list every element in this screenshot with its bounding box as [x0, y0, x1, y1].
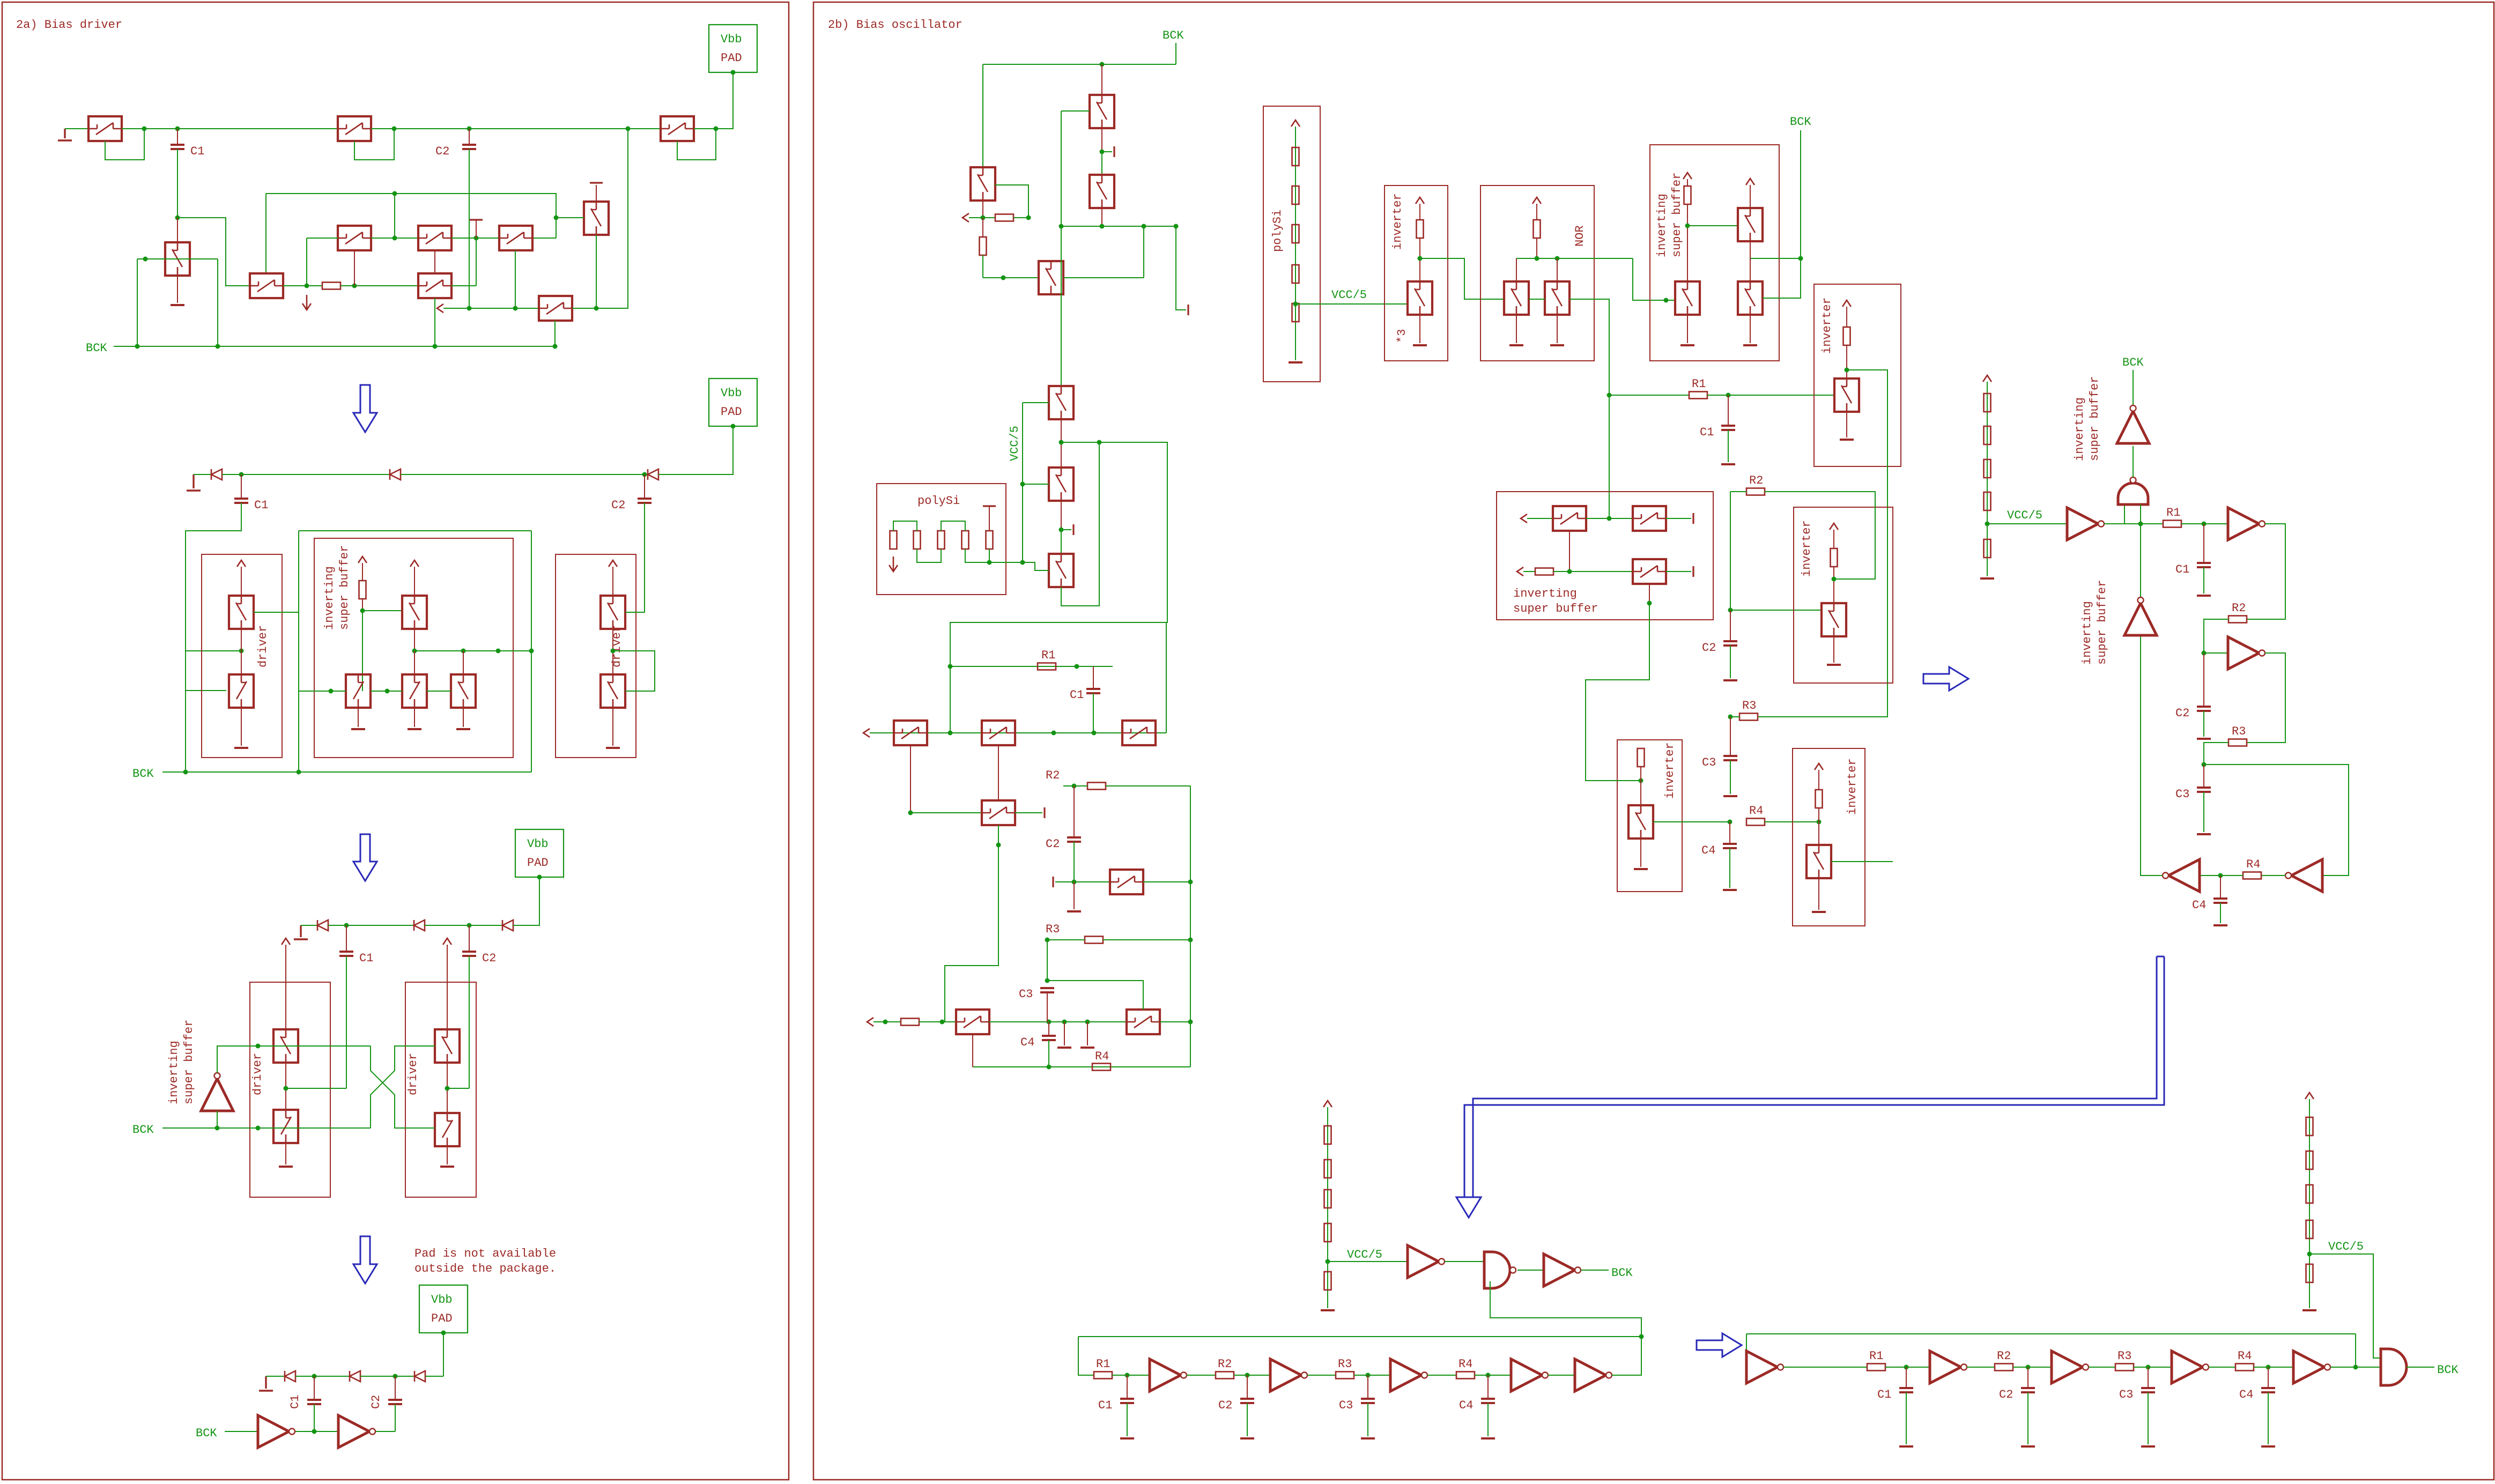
inverter BR-0 [1746, 1351, 1783, 1383]
wire C3m gnd lead [1730, 760, 1731, 794]
svg-text:C1: C1 [2175, 563, 2189, 576]
svg-text:super buffer: super buffer [2088, 376, 2101, 461]
wire C2g gnd lead [2203, 711, 2204, 737]
block frame inverting super buffer A2 [314, 538, 513, 758]
wire R2f left [1063, 785, 1087, 786]
inverter BR-4 [2293, 1351, 2330, 1383]
net label BCK (A4) [196, 1427, 217, 1440]
junction rail riser [626, 127, 631, 131]
wire C1m gnd lead [1728, 430, 1729, 462]
wire ISB2 top right [1666, 518, 1691, 519]
ground G44 C4i [2261, 1445, 2275, 1448]
resistor R1 (RM) [2163, 506, 2181, 528]
junction A4 n1 [312, 1374, 317, 1379]
arrow down polySi2 [889, 556, 898, 572]
svg-text:C1: C1 [1700, 426, 1714, 439]
capacitor C1 (RM) [2175, 563, 2211, 576]
junction n422c [1100, 224, 1105, 229]
wire C1g gnd lead [2203, 567, 2204, 593]
resistor RM chain-3 [1984, 459, 1991, 478]
label driver (2) [610, 625, 624, 667]
svg-text:R3: R3 [2232, 725, 2246, 738]
wire BL s4 [1548, 1375, 1575, 1376]
svg-text:VCC/5: VCC/5 [2328, 1240, 2364, 1253]
net arrow A1 row [437, 304, 443, 313]
junction BCK2 a [183, 770, 188, 775]
wire C2m gnd lead [1730, 645, 1731, 678]
wire driver2 lower gate [613, 651, 655, 691]
wire D3 to pad [658, 427, 733, 474]
junction n422b [1174, 224, 1179, 229]
label inverter (1) [1391, 193, 1404, 250]
diode D7 [285, 1371, 295, 1382]
wire ISB loop left [298, 531, 299, 772]
transistor B2 [418, 226, 451, 250]
wire F1 to nand [1445, 1261, 1484, 1262]
wire rowC left [873, 1021, 901, 1022]
wire nand out [1517, 1270, 1544, 1271]
transistor Vb4 [1090, 175, 1114, 208]
transistor driver3 lower [273, 1110, 298, 1143]
svg-text:R1: R1 [1096, 1357, 1110, 1371]
junction C4m node [1728, 820, 1733, 825]
inverting super buffer A (RM) [2067, 508, 2104, 540]
ground G20 ISB1 left [1680, 344, 1694, 346]
wire rowD [973, 1066, 1190, 1067]
wire D5 to D6 [425, 925, 502, 926]
ground G34 C4g [2213, 924, 2227, 926]
wire NOR b1 src [1516, 315, 1517, 343]
arrow up blk1 [1842, 300, 1851, 307]
svg-text:2b) Bias oscillator: 2b) Bias oscillator [828, 18, 963, 32]
NAND gate (BL) [1484, 1252, 1516, 1288]
junction BR n4 [2266, 1365, 2271, 1370]
label polySi (2) [917, 494, 960, 508]
wire R1 row a [1609, 395, 1689, 396]
wire NOR down to R1 row [1609, 299, 1610, 395]
ground G8 driver2 [606, 747, 620, 749]
junction BR n2 [2026, 1365, 2031, 1370]
ground G40 BR chain [2302, 1309, 2316, 1311]
capacitor C2 (LMO) [1046, 837, 1081, 851]
wire BR s4 [2330, 1367, 2381, 1368]
svg-text:driver: driver [406, 1053, 420, 1095]
wire R4 to blk4 [1765, 821, 1819, 822]
svg-text:R3: R3 [1046, 923, 1060, 936]
wire n3 to triD [2204, 765, 2349, 875]
junction C2a to row [467, 306, 472, 311]
wire n2 to T4 [177, 218, 250, 286]
resistor R (A1 mid) [322, 283, 340, 290]
wire T7 gate loop [677, 129, 716, 160]
svg-text:BCK: BCK [86, 342, 107, 355]
ground G36 C1h [1120, 1437, 1134, 1440]
capacitor C1 (LMO) [1070, 688, 1100, 702]
wire VCC/5 to inverter1 [1295, 303, 1408, 305]
transistor B3 [499, 226, 532, 250]
junction ISB-A2 n1 [360, 609, 365, 613]
wire NOR row482 [1516, 258, 1633, 259]
wire pad4 riser [443, 1333, 444, 1376]
wire driver2 link [612, 629, 613, 674]
NAND gate (RM) [2118, 477, 2148, 504]
wire R3 left [1730, 716, 1739, 717]
svg-text:C1: C1 [288, 1395, 302, 1409]
label inverter (blk1) [1820, 297, 1834, 354]
resistor BR chain-2 [2306, 1151, 2313, 1169]
svg-text:outside the package.: outside the package. [414, 1262, 556, 1275]
ground G31 C1g [2197, 595, 2211, 597]
ground G3 (A2) [187, 474, 201, 491]
label inverting (RM2) [2081, 601, 2094, 665]
wire T7 to pad riser [694, 72, 733, 129]
ground G33 C3g [2197, 833, 2211, 835]
junction BL n4 [1486, 1373, 1491, 1378]
wire row422 [1061, 226, 1144, 227]
wire rowC to Tn [919, 1021, 956, 1022]
svg-text:C2: C2 [435, 145, 449, 158]
wire C2c riser [469, 956, 470, 1088]
capacitor C1 (A2) [234, 499, 268, 512]
wire BL s3 [1427, 1375, 1456, 1376]
junction R1 row left [1607, 393, 1612, 398]
inverter B (A4) [338, 1415, 375, 1448]
junction nand right riser [2138, 522, 2143, 526]
wire long vertical gate [1061, 111, 1062, 386]
wire BL r2 out [1234, 1375, 1270, 1376]
wire B1 left riser [982, 64, 983, 167]
junction Tb node [1059, 528, 1064, 532]
wire NOR b2 top [1557, 258, 1558, 281]
svg-text:R3: R3 [2118, 1349, 2131, 1363]
arrow up NOR [1532, 197, 1541, 204]
junction T5 BCK [433, 344, 438, 349]
title 2a) Bias driver [16, 18, 122, 32]
junction B3 gate row [513, 306, 518, 311]
wire R4 to n4 [2220, 875, 2243, 876]
right panel frame 2b [813, 2, 2494, 1480]
ground G21 ISB1 rb [1743, 344, 1757, 346]
junction rowC c [1047, 1020, 1052, 1025]
wire Tq gate row [1055, 881, 1110, 882]
junction T6-T8 [594, 306, 599, 311]
resistor blk2 [1831, 548, 1838, 567]
resistor R3 (mid) [1739, 699, 1758, 721]
diode D6 [502, 920, 513, 931]
terminal bar Tm [1043, 807, 1045, 818]
junction top loop tap [393, 191, 397, 196]
svg-text:C2: C2 [1999, 1388, 2013, 1401]
wire R1 to triB [2181, 523, 2228, 524]
capacitor C1 (A3) [339, 952, 373, 965]
blue flow arrow 1 [353, 385, 377, 432]
junction T1 gate-drain [142, 127, 147, 131]
wire T4 out [283, 285, 322, 286]
svg-text:BCK: BCK [2437, 1363, 2459, 1377]
wire C1d bottom [314, 1404, 315, 1431]
wire C1i lead [1906, 1367, 1907, 1388]
net label BCK (mid) [1790, 115, 1811, 129]
ground G12 (A4 rail) [259, 1376, 273, 1391]
wire C2d bottom [395, 1404, 396, 1431]
Vbb PAD 2 [709, 379, 757, 429]
resistor LMO rowC [901, 1019, 919, 1026]
ground G18 NOR1 [1509, 344, 1523, 346]
wire arrow to C2a node [443, 308, 539, 309]
wire BL feedback [1078, 1336, 1641, 1337]
label inverting (ISB1) [1655, 194, 1669, 257]
wire LMO rowA [870, 732, 1166, 733]
junction rowC a [883, 1020, 888, 1025]
junction ISB1 bck [1798, 256, 1803, 261]
wire driver1 lower gate [186, 691, 226, 691]
resistor polySi2-3 [938, 531, 945, 549]
ground G14 rowC [1080, 1047, 1094, 1049]
arrow up chain BR [2305, 1093, 2314, 1099]
junction ISB1 gate [1664, 298, 1669, 303]
wire ISB1 res lead [1687, 179, 1688, 186]
resistor R4 (BR) [2235, 1349, 2254, 1371]
wire BR s0 [1783, 1367, 1867, 1368]
svg-text:C4: C4 [1020, 1036, 1034, 1049]
wire C1g lead [2203, 524, 2204, 563]
junction n422d [1059, 224, 1064, 229]
ground G5 LB1 [351, 728, 365, 730]
ground G27 blk3 [1634, 868, 1648, 870]
junction row2 b [496, 649, 501, 654]
arrow up driver2 [609, 560, 617, 567]
net label BCK (A2) [132, 767, 154, 781]
inverter C (RM) [2228, 637, 2265, 669]
wire D8 to D9 [360, 1376, 414, 1377]
net label VCC/5 (BL) [1347, 1248, 1382, 1262]
block frame polySi 2 [877, 484, 1006, 595]
wire R to n [1013, 217, 1028, 218]
wire vcc5 vertical [1022, 403, 1023, 562]
wire blk3 src [1640, 839, 1641, 867]
wire driver3 src [285, 1143, 286, 1164]
junction R1 node [1726, 393, 1731, 398]
net label BCK (A3) [132, 1123, 154, 1137]
wire row482 to ISB1 [1633, 258, 1674, 300]
junction B1 n2 [1026, 216, 1031, 220]
wire ISB1 rt bottom [1750, 241, 1751, 258]
inverting super buffer B (RM) [2117, 405, 2149, 443]
wire blk4 res lead [1818, 770, 1819, 790]
junction BR n1 [1904, 1365, 1909, 1370]
wire D9 to pad4 [425, 1376, 443, 1377]
junction RM n2 [2202, 651, 2207, 656]
ground G26 C3m [1723, 795, 1737, 797]
svg-text:R3: R3 [1742, 699, 1756, 713]
junction BCK3 gate [256, 1126, 261, 1131]
capacitor C1 (BL) [1098, 1399, 1134, 1412]
wire n3 to T5 [354, 285, 418, 286]
wire nand left input [2124, 504, 2125, 524]
wire BCK to invA [225, 1431, 258, 1432]
wire blk2 res lead [1833, 530, 1834, 548]
junction rowC d [1062, 1020, 1067, 1025]
junction BR n3 [2146, 1365, 2151, 1370]
transistor M3 [1122, 721, 1156, 745]
note pad line1 [414, 1247, 556, 1260]
svg-text:C4: C4 [2239, 1388, 2253, 1401]
wire n node down [982, 218, 983, 237]
transistor B1 [338, 226, 371, 250]
transistor ISB-A2 TU1 [402, 596, 427, 629]
wire Ta gate [1023, 402, 1049, 403]
junction rowC b [940, 1020, 945, 1025]
label inverter (blk4) [1846, 758, 1859, 815]
wire NOR out down [1569, 299, 1609, 518]
wire Tb src [1061, 501, 1062, 530]
svg-text:VCC/5: VCC/5 [1331, 288, 1367, 302]
svg-text:R2: R2 [1218, 1357, 1232, 1371]
wire Tb to Tc [1061, 530, 1062, 554]
terminal bar ISB2 a [1692, 513, 1694, 524]
wire driver1 drain up [241, 567, 242, 596]
ground G22 C1m [1721, 463, 1735, 465]
wire B3 to T8 gate riser [532, 238, 556, 239]
diode D4 [317, 920, 328, 931]
junction B-row tap [393, 236, 397, 241]
NAND gate (BR) [2381, 1349, 2407, 1385]
wire C1b top [241, 474, 242, 499]
wire C4i lead [2268, 1367, 2269, 1388]
terminal bar polySi2 [983, 505, 996, 507]
transistor Tn [956, 1010, 989, 1034]
wire C4g gnd lead [2220, 903, 2221, 923]
resistor polySi1-2 [1292, 186, 1299, 204]
transistor driver2 lower [601, 674, 625, 708]
resistor polySi1-3 [1292, 225, 1299, 243]
wire ISB1 n1 right [1687, 225, 1738, 226]
arrow up inverter1 [1416, 197, 1424, 204]
wire n2 up to Vb1 right [995, 185, 1028, 218]
junction ISB2 out [1647, 601, 1652, 606]
junction LMO r1 out [1075, 664, 1079, 669]
svg-text:2a) Bias driver: 2a) Bias driver [16, 18, 122, 32]
wire F2 to BCK [1581, 1270, 1609, 1271]
wire C2c top [469, 925, 470, 952]
diode D2 [390, 469, 401, 480]
svg-text:BCK: BCK [1790, 115, 1811, 129]
wire up to n422 [1143, 226, 1144, 278]
junction driver4 mid [445, 1086, 450, 1091]
wire to BCK [2133, 370, 2134, 405]
svg-text:C1: C1 [254, 499, 268, 512]
wire R3 node down [1730, 717, 1731, 756]
svg-text:super buffer: super buffer [2096, 580, 2109, 665]
block frame inverter 1 [1385, 186, 1448, 361]
wire T3 gate rail [137, 258, 218, 259]
junction n1 C1 tap [175, 127, 180, 131]
junction rowD up [1188, 1020, 1193, 1025]
svg-text:inverter: inverter [1800, 520, 1813, 577]
junction BL n3 [1366, 1373, 1371, 1378]
wire C1b down-left [186, 503, 241, 772]
wire T5 source to BCK [434, 298, 435, 346]
wire driver4 src [447, 1146, 448, 1164]
capacitor C2 (A1) [435, 145, 476, 158]
wire D1 to D2 [222, 474, 390, 475]
wire Tn src [972, 1034, 973, 1067]
svg-text:Vbb: Vbb [721, 387, 742, 400]
arrow up ISB1 left [1683, 173, 1692, 179]
svg-text:C2: C2 [611, 499, 625, 512]
resistor polySi2-5 [986, 531, 993, 549]
transistor Tq [1110, 870, 1143, 894]
capacitor C1 (mid) [1700, 426, 1735, 439]
wire C3i lead [2148, 1367, 2149, 1388]
wire bufA to R1 [2124, 523, 2163, 524]
svg-text:C2: C2 [369, 1395, 383, 1409]
block frame inverter blk1 [1814, 284, 1901, 466]
terminal bar above B-row [470, 219, 483, 220]
svg-text:R2: R2 [1749, 474, 1763, 487]
resistor BL chain-1 [1324, 1126, 1331, 1144]
transistor ISB-A2 LB2 [402, 674, 427, 708]
junction blk2 out [1832, 577, 1837, 582]
svg-text:inverter: inverter [1663, 742, 1677, 799]
wire triE out [2141, 635, 2163, 875]
svg-text:R4: R4 [1095, 1050, 1109, 1063]
transistor NOR-1 [1504, 281, 1529, 315]
junction row2 a [461, 649, 466, 654]
svg-text:*3: *3 [1395, 329, 1409, 343]
junction BCK x406 [216, 344, 220, 349]
wire C4m lead [1729, 822, 1730, 844]
wire polySi2 serp1 [893, 521, 917, 531]
svg-text:C2: C2 [1046, 837, 1060, 851]
wire stub bar1 [1102, 151, 1112, 152]
wire BR feedback [1746, 1333, 2356, 1334]
svg-text:C1: C1 [1098, 1399, 1112, 1412]
ground G15 Tq [1067, 910, 1081, 912]
capacitor C3 (LMO) [1019, 988, 1054, 1001]
wire BR r4 out [2254, 1367, 2293, 1368]
wire C1b branch [186, 650, 241, 651]
transistor driver4 upper [435, 1029, 460, 1063]
resistor ISB2 [1535, 568, 1553, 575]
wire node to R [983, 217, 995, 218]
block frame NOR [1480, 186, 1594, 361]
inverter BR-3 [2172, 1351, 2209, 1383]
transistor Tb [1049, 468, 1073, 501]
svg-text:C3: C3 [1339, 1399, 1353, 1412]
resistor R3 (BL) [1336, 1357, 1354, 1379]
wire C2h gnd lead [1247, 1403, 1248, 1436]
junction inv1 out [1418, 256, 1423, 261]
svg-text:R1: R1 [1869, 1349, 1883, 1363]
svg-text:VCC/5: VCC/5 [1347, 1248, 1382, 1262]
svg-text:driver: driver [256, 625, 270, 667]
wire inv1 res lead [1419, 204, 1420, 220]
block frame inverter blk2 [1794, 507, 1893, 683]
ground G43 C3i [2141, 1445, 2155, 1448]
terminal bar B1 b [1113, 146, 1115, 157]
junction ISB-A2 n2 [412, 649, 417, 654]
label inverting (RM) [2073, 397, 2086, 461]
ground G1 (circuit A1 input) [58, 129, 72, 140]
resistor R1 (LMO) [1038, 649, 1056, 670]
junction rowD [1047, 1065, 1052, 1070]
resistor R4 (RM) [2243, 858, 2261, 879]
wire blk2 link [1833, 567, 1834, 603]
block frame polySi 1 [1263, 106, 1320, 382]
transistor M2 [982, 721, 1015, 745]
wire C2b riser [644, 474, 645, 499]
